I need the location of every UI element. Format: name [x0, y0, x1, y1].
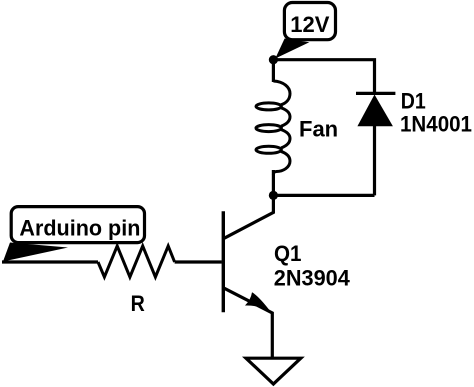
svg-text:2N3904: 2N3904: [274, 266, 351, 291]
svg-text:Q1: Q1: [274, 241, 302, 266]
callout box Arduino pin: [11, 207, 144, 243]
diode D1 cathode bar: [356, 92, 395, 95]
callout pointer 12V: [275, 39, 309, 59]
wire bottom rail: node to diode branch: [273, 194, 374, 197]
wire: diode anode down to bottom rail: [373, 126, 376, 195]
wire: coil bottom to bottom node: [272, 170, 275, 195]
transistor Q1 emitter with wire to ground: [224, 288, 273, 358]
wire: top node into coil: [272, 60, 275, 82]
transistor Q1 base bar: [222, 211, 225, 312]
wire top: node to top-right corner down to diode cathode: [273, 60, 374, 92]
wire: bottom node down to collector bend: [224, 195, 274, 238]
transistor Q1 emitter arrow: [245, 292, 270, 310]
svg-text:12V: 12V: [290, 12, 329, 37]
diode D1 triangle: [357, 95, 393, 127]
wire: arduino pin to resistor: [2, 260, 98, 263]
svg-text:Arduino pin: Arduino pin: [19, 215, 140, 240]
svg-text:Fan: Fan: [299, 116, 338, 141]
wire: resistor to base: [175, 260, 222, 263]
resistor R: [98, 246, 175, 277]
svg-text:D1: D1: [401, 89, 426, 114]
svg-text:R: R: [131, 291, 145, 316]
ground: [246, 358, 301, 384]
svg-text:1N4001: 1N4001: [400, 112, 472, 137]
node: fan/diode/collector junction: [269, 191, 278, 200]
node: 12V supply node: [269, 55, 278, 64]
inductor Fan coil: [256, 81, 290, 175]
callout box 12V: [284, 3, 335, 40]
callout pointer Arduino pin: [3, 243, 68, 262]
